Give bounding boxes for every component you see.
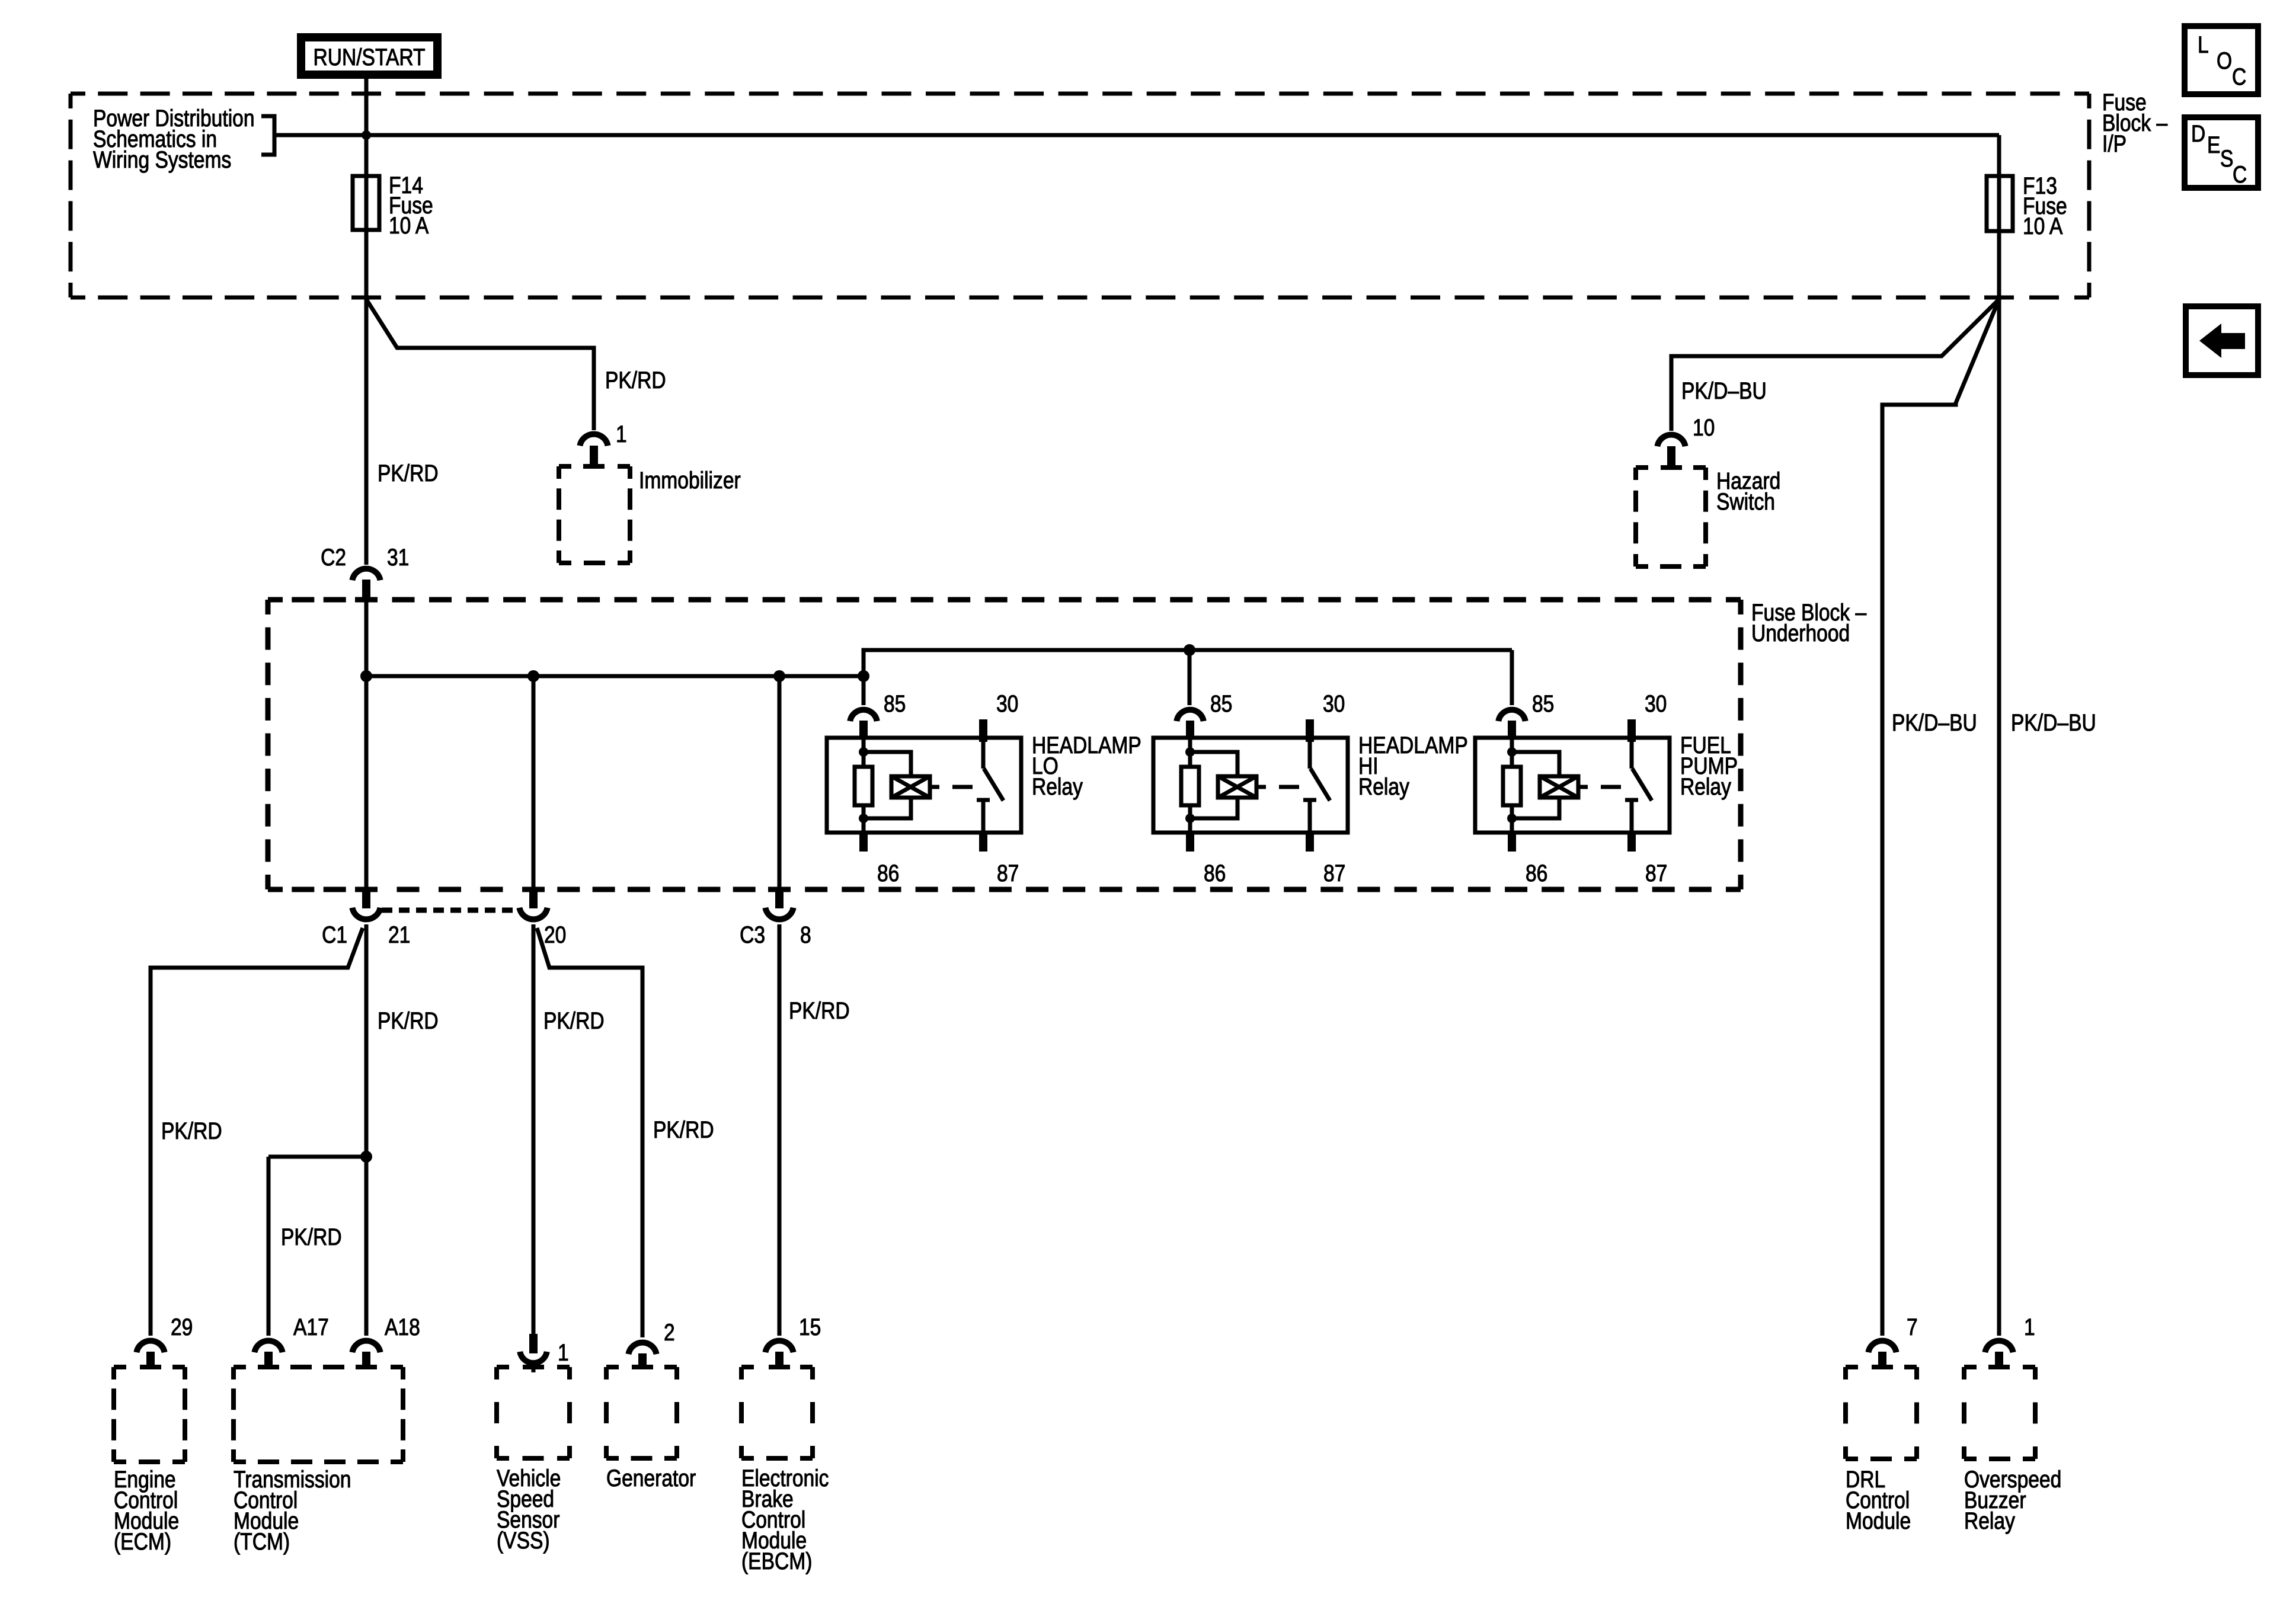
icon LOC box bbox=[2185, 26, 2258, 94]
pin 85 stub relay FUEL PUMP bbox=[1508, 721, 1516, 740]
wire PK/RD into underhood block bbox=[364, 601, 369, 887]
module Overspeed dashed box bbox=[1964, 1367, 2035, 1459]
wire PK/RD to generator bbox=[537, 928, 642, 1337]
wire PK/RD to VSS bbox=[532, 924, 536, 1334]
svg-text:30: 30 bbox=[1645, 690, 1667, 716]
svg-text:8: 8 bbox=[800, 921, 811, 948]
pin 87 stub relay HEADLAMP LO bbox=[979, 833, 987, 852]
switch blade relay HEADLAMP HI bbox=[1310, 769, 1330, 801]
pin stub immobilizer bbox=[590, 446, 598, 468]
svg-text:7: 7 bbox=[1907, 1314, 1918, 1340]
svg-text:86: 86 bbox=[1204, 860, 1226, 886]
wire PK/D-BU to hazard switch bbox=[1671, 299, 1999, 431]
relay box relay HEADLAMP LO bbox=[827, 738, 1021, 833]
svg-text:A17: A17 bbox=[293, 1314, 329, 1340]
pin 30 stub relay FUEL PUMP bbox=[1627, 719, 1636, 742]
svg-text:10: 10 bbox=[1693, 414, 1715, 440]
wire F14 output bbox=[364, 230, 369, 299]
svg-text:15: 15 bbox=[799, 1314, 821, 1340]
coil junction bottom relay HEADLAMP HI bbox=[1185, 814, 1195, 823]
svg-text:1: 1 bbox=[2024, 1314, 2035, 1340]
coil branch top relay FUEL PUMP bbox=[1512, 752, 1559, 776]
svg-text:C: C bbox=[2233, 161, 2247, 187]
coil top lead relay HEADLAMP HI bbox=[1188, 740, 1192, 767]
solenoid coil relay FUEL PUMP bbox=[1540, 776, 1578, 798]
module Immobilizer dashed box bbox=[559, 466, 630, 563]
pin stub C3-8 bbox=[775, 889, 784, 908]
switch contact tick relay HEADLAMP HI bbox=[1303, 798, 1316, 802]
wire underhood bus bbox=[366, 674, 864, 678]
wire PK/RD to ECM bbox=[151, 928, 363, 1336]
svg-text:PK/D–BU: PK/D–BU bbox=[1892, 709, 1977, 735]
coil branch top relay HEADLAMP HI bbox=[1190, 752, 1237, 776]
pin 86 stub relay FUEL PUMP bbox=[1508, 833, 1516, 852]
solenoid X relay HEADLAMP LO bbox=[891, 776, 930, 798]
pin stub 20 bbox=[529, 889, 538, 908]
svg-text:85: 85 bbox=[1532, 690, 1554, 716]
pin 85 stub relay HEADLAMP HI bbox=[1186, 721, 1194, 740]
pin stub VSS wire end bbox=[529, 1334, 538, 1353]
wire PK/RD to EBCM bbox=[778, 924, 782, 1336]
wire bus to C3 pin 8 bbox=[778, 676, 782, 887]
pin 30 stub relay HEADLAMP LO bbox=[979, 719, 987, 742]
connector 85 relay HEADLAMP HI bbox=[1176, 710, 1203, 721]
solenoid X relay FUEL PUMP bbox=[1540, 776, 1578, 798]
icon DESC box bbox=[2185, 117, 2258, 188]
connector pin 20 bbox=[519, 908, 547, 920]
svg-text:PK/RD: PK/RD bbox=[161, 1118, 222, 1144]
coil top lead relay FUEL PUMP bbox=[1510, 740, 1514, 767]
switch fixed contact 87 relay HEADLAMP HI bbox=[1308, 800, 1312, 833]
svg-text:PK/RD: PK/RD bbox=[543, 1007, 605, 1033]
svg-text:31: 31 bbox=[387, 544, 409, 570]
wire PK/RD C1 to A18 bbox=[364, 924, 369, 1336]
coil junction top relay FUEL PUMP bbox=[1507, 747, 1517, 757]
pin stub EBCM pin 15 bbox=[775, 1352, 784, 1368]
switch fixed contact 87 relay HEADLAMP LO bbox=[981, 800, 986, 833]
svg-text:S: S bbox=[2220, 145, 2233, 171]
fuse F13 bbox=[1987, 176, 2013, 231]
switch blade relay FUEL PUMP bbox=[1632, 769, 1652, 801]
arrow glyph bbox=[2199, 324, 2245, 358]
fuse block I/P dashed enclosure bbox=[71, 94, 2089, 297]
connector TCM pin A17 bbox=[254, 1341, 282, 1353]
pin stub generator bbox=[638, 1353, 647, 1368]
svg-text:PK/D–BU: PK/D–BU bbox=[2011, 709, 2096, 735]
wire through F14 bbox=[364, 176, 369, 230]
actuator dash relay FUEL PUMP bbox=[1601, 785, 1621, 789]
pin stub overspeed pin 1 bbox=[1995, 1352, 2003, 1368]
module VSS dashed box bbox=[497, 1367, 570, 1458]
connector C3 pin 8 bbox=[765, 908, 793, 920]
wire F13 output bbox=[1997, 231, 2001, 299]
solenoid coil relay HEADLAMP LO bbox=[891, 776, 930, 798]
svg-text:Immobilizer: Immobilizer bbox=[639, 467, 741, 493]
coil junction bottom relay FUEL PUMP bbox=[1507, 814, 1517, 823]
wire ignition feed bus bbox=[274, 133, 1999, 137]
switch fixed contact 30 relay FUEL PUMP bbox=[1630, 742, 1634, 769]
pin 86 stub relay HEADLAMP LO bbox=[859, 833, 868, 852]
connector 85 relay FUEL PUMP bbox=[1498, 710, 1525, 721]
wire PK/D-BU to DRL module bbox=[1882, 299, 1999, 1336]
wire A17 branch vertical bbox=[267, 1157, 271, 1336]
bracket to power distribution note bbox=[261, 116, 274, 155]
fuse F14 bbox=[353, 176, 379, 230]
solenoid coil relay HEADLAMP HI bbox=[1218, 776, 1256, 798]
svg-text:E: E bbox=[2207, 132, 2220, 158]
coil top lead relay HEADLAMP LO bbox=[862, 740, 866, 767]
switch fixed contact 30 relay HEADLAMP LO bbox=[981, 742, 986, 769]
svg-text:FUELPUMPRelay: FUELPUMPRelay bbox=[1680, 732, 1738, 799]
wire bus to pin 20 bbox=[532, 676, 536, 887]
svg-text:PK/RD: PK/RD bbox=[378, 1007, 439, 1033]
connector DRL pin 7 bbox=[1868, 1341, 1896, 1353]
wire to headlamp hi relay 85 bbox=[1188, 650, 1192, 705]
module DRL dashed box bbox=[1846, 1367, 1917, 1459]
coil bottom lead relay FUEL PUMP bbox=[1510, 805, 1514, 833]
svg-text:2: 2 bbox=[664, 1319, 675, 1345]
connector immobilizer pin 1 bbox=[580, 434, 607, 446]
connector generator pin 2 bbox=[628, 1343, 656, 1355]
svg-text:Fuse Block –Underhood: Fuse Block –Underhood bbox=[1751, 599, 1867, 646]
junction A17 branch bbox=[360, 1151, 372, 1163]
pin stub C1-21 bbox=[362, 889, 370, 908]
svg-text:RUN/START: RUN/START bbox=[313, 44, 425, 70]
svg-text:87: 87 bbox=[997, 860, 1019, 886]
pin 86 stub relay HEADLAMP HI bbox=[1186, 833, 1194, 852]
svg-text:O: O bbox=[2217, 47, 2232, 73]
coil branch bottom relay HEADLAMP HI bbox=[1190, 798, 1237, 818]
wire PK/RD to immobilizer bbox=[366, 299, 594, 430]
module TCM dashed box bbox=[234, 1367, 403, 1462]
switch blade relay HEADLAMP LO bbox=[984, 769, 1003, 801]
connector TCM pin A18 bbox=[352, 1341, 380, 1353]
junction bus at relay riser bbox=[858, 670, 869, 682]
switch RUN/START box bbox=[297, 33, 442, 79]
module Hazard Switch dashed box bbox=[1636, 468, 1706, 566]
coil branch bottom relay FUEL PUMP bbox=[1512, 798, 1559, 818]
wire relay feeder bbox=[864, 650, 1512, 676]
wire RUN/START stem bbox=[364, 79, 369, 176]
pin stub TCM pin A18 bbox=[362, 1352, 370, 1368]
svg-text:PK/RD: PK/RD bbox=[605, 367, 666, 393]
switch contact tick relay FUEL PUMP bbox=[1625, 798, 1638, 802]
pin stub DRL pin 7 bbox=[1878, 1352, 1886, 1368]
junction bus at main run bbox=[360, 670, 372, 682]
svg-text:85: 85 bbox=[1210, 690, 1232, 716]
svg-text:HazardSwitch: HazardSwitch bbox=[1716, 468, 1780, 514]
svg-text:1: 1 bbox=[616, 421, 627, 447]
svg-text:30: 30 bbox=[996, 690, 1018, 716]
connector overspeed pin 1 bbox=[1985, 1341, 2013, 1353]
pin stub C2-31 bbox=[362, 580, 370, 601]
junction bus at pin 20 branch bbox=[527, 670, 539, 682]
svg-text:L: L bbox=[2198, 31, 2209, 57]
svg-text:A18: A18 bbox=[385, 1314, 420, 1340]
pin stub ECM pin 29 bbox=[146, 1352, 155, 1368]
svg-text:1: 1 bbox=[558, 1339, 569, 1365]
svg-text:C: C bbox=[2232, 63, 2246, 89]
solenoid X relay HEADLAMP HI bbox=[1218, 776, 1256, 798]
actuator lead relay HEADLAMP HI bbox=[1256, 785, 1266, 789]
svg-text:PK/RD: PK/RD bbox=[653, 1116, 714, 1142]
relay box relay FUEL PUMP bbox=[1475, 738, 1670, 833]
connector VSS pin 1 cup bbox=[520, 1352, 546, 1363]
svg-text:C2: C2 bbox=[321, 544, 346, 570]
actuator dash relay HEADLAMP HI bbox=[1279, 785, 1299, 789]
module Generator dashed box bbox=[606, 1367, 677, 1458]
svg-text:87: 87 bbox=[1323, 860, 1345, 886]
wire PK/RD F14 to C2 bbox=[364, 299, 369, 565]
coil branch bottom relay HEADLAMP LO bbox=[864, 798, 911, 818]
wire through F13 bbox=[1997, 176, 2001, 231]
connector body dash C1-20 bbox=[382, 908, 518, 913]
icon back arrow box bbox=[2186, 306, 2258, 375]
switch contact tick relay HEADLAMP LO bbox=[977, 798, 990, 802]
connector 85 relay HEADLAMP LO bbox=[850, 710, 877, 721]
svg-text:29: 29 bbox=[171, 1314, 193, 1340]
pin stub hazard bbox=[1667, 446, 1675, 468]
VSS cup tick bbox=[532, 1366, 536, 1372]
svg-text:EngineControlModule(ECM): EngineControlModule(ECM) bbox=[114, 1466, 179, 1554]
svg-text:86: 86 bbox=[877, 860, 899, 886]
svg-text:87: 87 bbox=[1645, 860, 1667, 886]
connector C2 pin 31 bbox=[352, 569, 380, 581]
switch fixed contact 30 relay HEADLAMP HI bbox=[1308, 742, 1312, 769]
wire to headlamp lo relay 85 bbox=[862, 676, 866, 705]
actuator lead relay FUEL PUMP bbox=[1578, 785, 1588, 789]
module ECM dashed box bbox=[114, 1367, 185, 1462]
svg-text:20: 20 bbox=[544, 921, 566, 948]
pin stub TCM pin A17 bbox=[264, 1352, 273, 1368]
svg-text:85: 85 bbox=[884, 690, 906, 716]
svg-text:C3: C3 bbox=[740, 921, 765, 948]
svg-text:86: 86 bbox=[1526, 860, 1547, 886]
pin 87 stub relay FUEL PUMP bbox=[1627, 833, 1636, 852]
svg-text:D: D bbox=[2191, 120, 2205, 146]
coil junction bottom relay HEADLAMP LO bbox=[859, 814, 868, 823]
wire F13 feed drop bbox=[1997, 135, 2001, 176]
fuse block Underhood dashed enclosure bbox=[268, 600, 1741, 889]
svg-text:PK/RD: PK/RD bbox=[281, 1224, 342, 1250]
module EBCM dashed box bbox=[741, 1367, 813, 1458]
svg-text:C1: C1 bbox=[322, 921, 347, 948]
pin 87 stub relay HEADLAMP HI bbox=[1306, 833, 1314, 852]
connector C1 pin 21 bbox=[352, 908, 380, 920]
actuator lead relay HEADLAMP LO bbox=[930, 785, 939, 789]
coil branch top relay HEADLAMP LO bbox=[864, 752, 911, 776]
svg-text:PK/RD: PK/RD bbox=[789, 997, 850, 1023]
wire PK/D-BU to overspeed relay bbox=[1997, 299, 2001, 1336]
wire to fuel pump relay 85 bbox=[1510, 650, 1514, 705]
junction feeder at headlamp hi relay bbox=[1184, 644, 1195, 656]
pin 85 stub relay HEADLAMP LO bbox=[859, 721, 868, 740]
junction RUN/START feed bbox=[362, 130, 371, 140]
svg-text:PK/D–BU: PK/D–BU bbox=[1681, 377, 1767, 404]
svg-text:Generator: Generator bbox=[606, 1465, 696, 1491]
connector hazard pin 10 bbox=[1657, 435, 1685, 447]
pin 30 stub relay HEADLAMP HI bbox=[1306, 719, 1314, 742]
resistor relay HEADLAMP HI bbox=[1181, 767, 1199, 805]
coil bottom lead relay HEADLAMP HI bbox=[1188, 805, 1192, 833]
coil junction top relay HEADLAMP HI bbox=[1185, 747, 1195, 757]
resistor relay FUEL PUMP bbox=[1503, 767, 1521, 805]
switch fixed contact 87 relay FUEL PUMP bbox=[1630, 800, 1634, 833]
relay box relay HEADLAMP HI bbox=[1153, 738, 1348, 833]
wire A17 branch horizontal bbox=[268, 1155, 366, 1159]
actuator dash relay HEADLAMP LO bbox=[952, 785, 973, 789]
resistor relay HEADLAMP LO bbox=[855, 767, 872, 805]
coil junction top relay HEADLAMP LO bbox=[859, 747, 868, 757]
junction bus at C3 branch bbox=[773, 670, 785, 682]
connector ECM pin 29 bbox=[136, 1341, 164, 1353]
connector EBCM pin 15 bbox=[765, 1341, 793, 1353]
coil bottom lead relay HEADLAMP LO bbox=[862, 805, 866, 833]
svg-text:30: 30 bbox=[1323, 690, 1345, 716]
svg-text:21: 21 bbox=[388, 921, 410, 948]
svg-text:PK/RD: PK/RD bbox=[378, 460, 439, 486]
